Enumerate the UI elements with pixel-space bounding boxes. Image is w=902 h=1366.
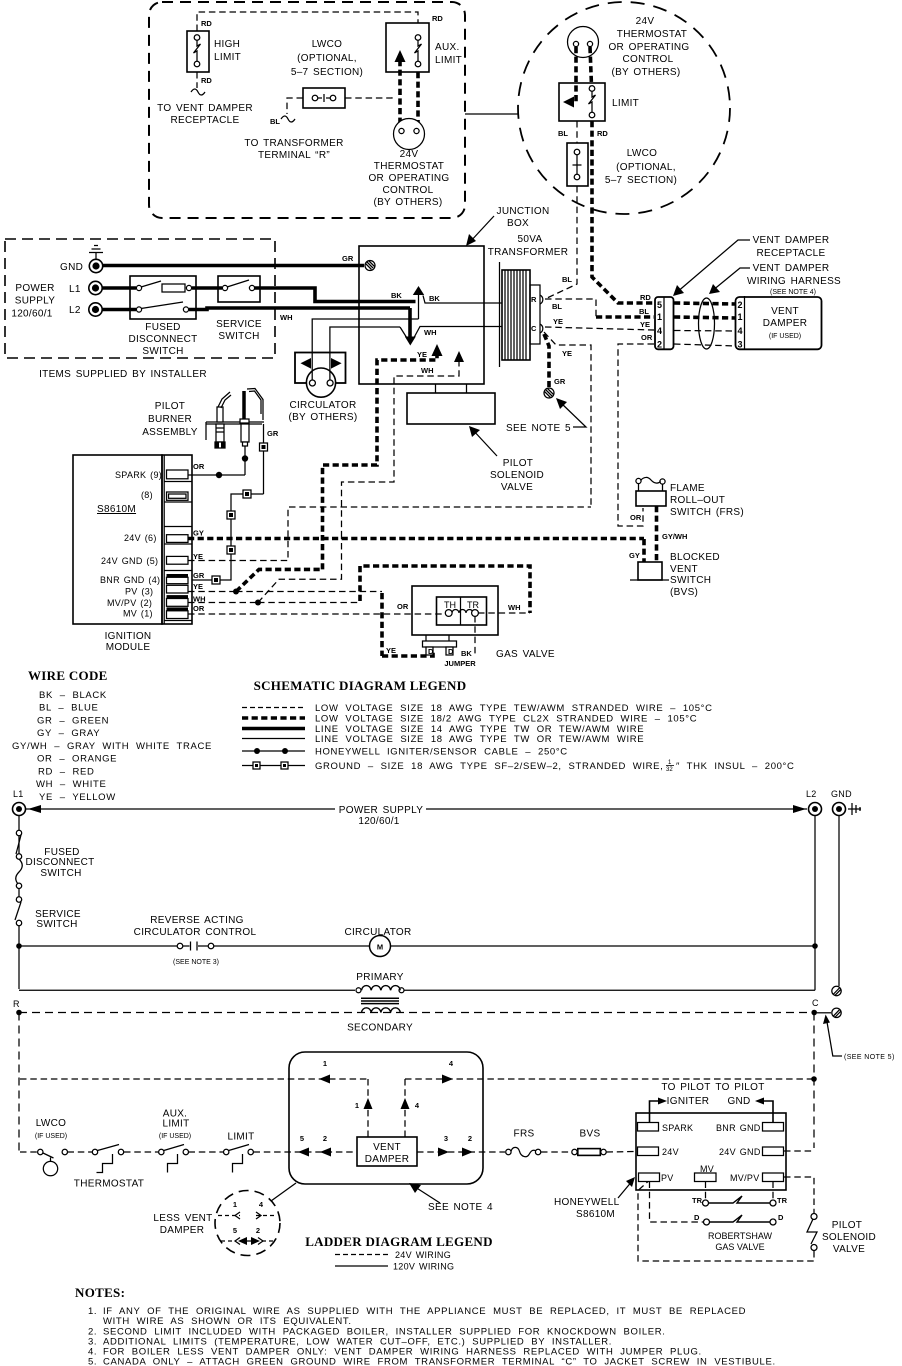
svg-text:SERVICE: SERVICE xyxy=(216,319,262,330)
svg-text:50VA: 50VA xyxy=(518,234,543,245)
svg-text:VALVE: VALVE xyxy=(501,482,533,493)
svg-text:DAMPER: DAMPER xyxy=(365,1154,410,1165)
svg-text:LOW VOLTAGE SIZE 18/2 AWG TYPE: LOW VOLTAGE SIZE 18/2 AWG TYPE CL2X STRA… xyxy=(315,714,697,725)
svg-text:BL: BL xyxy=(562,275,572,284)
svg-text:L1: L1 xyxy=(13,789,24,799)
svg-text:2: 2 xyxy=(657,340,662,350)
svg-text:GAS VALVE: GAS VALVE xyxy=(715,1242,764,1252)
svg-text:BL: BL xyxy=(270,117,280,126)
svg-text:POWER: POWER xyxy=(15,283,54,294)
svg-text:(SEE NOTE 4): (SEE NOTE 4) xyxy=(770,289,816,296)
svg-text:VENT: VENT xyxy=(670,564,698,575)
svg-text:LINE VOLTAGE SIZE 18 AWG TYPE: LINE VOLTAGE SIZE 18 AWG TYPE TW OR TEW/… xyxy=(315,734,644,745)
svg-text:TERMINAL “R”: TERMINAL “R” xyxy=(258,150,330,161)
svg-text:5.: 5. xyxy=(88,1357,97,1366)
svg-text:SPARK (9): SPARK (9) xyxy=(115,470,162,480)
svg-text:PV: PV xyxy=(661,1173,674,1183)
svg-text:32: 32 xyxy=(666,767,673,773)
svg-text:TO PILOT: TO PILOT xyxy=(661,1082,710,1093)
svg-text:OR: OR xyxy=(630,513,642,522)
svg-text:S8610M: S8610M xyxy=(576,1209,615,1220)
svg-text:ASSEMBLY: ASSEMBLY xyxy=(142,427,198,438)
svg-text:OR: OR xyxy=(193,462,205,471)
svg-text:PILOT: PILOT xyxy=(155,401,185,412)
svg-text:DISCONNECT: DISCONNECT xyxy=(25,857,94,868)
svg-text:YE: YE xyxy=(553,317,563,326)
svg-text:ROBERTSHAW: ROBERTSHAW xyxy=(708,1231,773,1241)
svg-text:(SEE NOTE 3): (SEE NOTE 3) xyxy=(173,959,219,966)
svg-text:CIRCULATOR: CIRCULATOR xyxy=(344,927,411,938)
svg-text:24V: 24V xyxy=(662,1147,679,1157)
svg-text:CONTROL: CONTROL xyxy=(383,185,434,196)
svg-text:RD: RD xyxy=(432,14,443,23)
svg-text:JUNCTION: JUNCTION xyxy=(497,206,550,217)
svg-text:THERMOSTAT: THERMOSTAT xyxy=(74,1179,144,1190)
svg-text:SOLENOID: SOLENOID xyxy=(490,470,544,481)
svg-text:RECEPTACLE: RECEPTACLE xyxy=(757,248,826,259)
svg-text:5–7 SECTION): 5–7 SECTION) xyxy=(291,67,363,78)
svg-text:PRIMARY: PRIMARY xyxy=(356,972,404,983)
svg-text:WH: WH xyxy=(508,603,521,612)
svg-text:TO PILOT: TO PILOT xyxy=(715,1082,764,1093)
svg-text:GY: GY xyxy=(193,529,204,538)
svg-text:CANADA ONLY – ATTACH GREEN GRO: CANADA ONLY – ATTACH GREEN GROUND WIRE F… xyxy=(103,1357,776,1366)
svg-text:PILOT: PILOT xyxy=(832,1220,862,1231)
svg-text:DISCONNECT: DISCONNECT xyxy=(128,334,197,345)
svg-text:24V WIRING: 24V WIRING xyxy=(395,1250,451,1260)
svg-text:3: 3 xyxy=(444,1134,448,1143)
svg-text:VALVE: VALVE xyxy=(833,1244,865,1255)
svg-text:TR: TR xyxy=(777,1196,788,1205)
svg-text:TR: TR xyxy=(692,1196,703,1205)
svg-text:OR: OR xyxy=(397,602,409,611)
svg-text:24V GND (5): 24V GND (5) xyxy=(101,556,158,566)
svg-text:24V: 24V xyxy=(636,16,655,27)
svg-text:LIMIT: LIMIT xyxy=(612,98,639,109)
svg-text:POWER SUPPLY: POWER SUPPLY xyxy=(339,805,423,816)
svg-text:WIRING HARNESS: WIRING HARNESS xyxy=(747,276,841,287)
svg-text:GND: GND xyxy=(831,789,852,799)
svg-text:VENT DAMPER: VENT DAMPER xyxy=(753,235,830,246)
svg-text:BL: BL xyxy=(639,307,649,316)
svg-text:24V GND: 24V GND xyxy=(719,1147,761,1157)
svg-text:LIMIT: LIMIT xyxy=(214,52,241,63)
svg-text:BL: BL xyxy=(552,302,562,311)
svg-text:M: M xyxy=(377,943,383,952)
svg-text:GY: GY xyxy=(629,551,640,560)
svg-text:(OPTIONAL,: (OPTIONAL, xyxy=(297,53,357,64)
svg-text:TRANSFORMER: TRANSFORMER xyxy=(488,247,569,258)
svg-text:PILOT: PILOT xyxy=(503,458,533,469)
svg-text:120/60/1: 120/60/1 xyxy=(358,816,399,827)
svg-text:LWCO: LWCO xyxy=(312,39,342,50)
svg-text:IGNITER: IGNITER xyxy=(667,1096,710,1107)
svg-text:YE: YE xyxy=(640,320,650,329)
svg-text:GR: GR xyxy=(554,377,566,386)
svg-text:D: D xyxy=(778,1213,784,1222)
svg-text:R: R xyxy=(531,295,537,304)
svg-text:YE: YE xyxy=(386,646,396,655)
svg-text:2: 2 xyxy=(323,1134,327,1143)
svg-text:(OPTIONAL,: (OPTIONAL, xyxy=(616,162,676,173)
svg-text:LWCO: LWCO xyxy=(627,148,657,159)
svg-text:GY/WH – GRAY WITH WHITE TRACE: GY/WH – GRAY WITH WHITE TRACE xyxy=(12,741,212,752)
svg-text:BLOCKED: BLOCKED xyxy=(670,552,720,563)
svg-text:1: 1 xyxy=(355,1101,359,1110)
svg-text:HONEYWELL: HONEYWELL xyxy=(554,1197,620,1208)
svg-text:SUPPLY: SUPPLY xyxy=(15,296,56,307)
svg-text:GR – GREEN: GR – GREEN xyxy=(37,716,109,727)
svg-text:SOLENOID: SOLENOID xyxy=(822,1232,876,1243)
svg-text:(BY OTHERS): (BY OTHERS) xyxy=(611,67,680,78)
svg-text:5–7 SECTION): 5–7 SECTION) xyxy=(605,175,677,186)
svg-text:L1: L1 xyxy=(69,284,81,295)
svg-text:SCHEMATIC DIAGRAM LEGEND: SCHEMATIC DIAGRAM LEGEND xyxy=(254,678,467,693)
svg-text:GR: GR xyxy=(193,571,205,580)
svg-text:OR OPERATING: OR OPERATING xyxy=(608,42,689,53)
svg-text:RD: RD xyxy=(201,19,212,28)
svg-text:BK – BLACK: BK – BLACK xyxy=(39,690,107,701)
svg-text:SWITCH: SWITCH xyxy=(670,575,711,586)
svg-text:WH: WH xyxy=(424,328,437,337)
svg-text:5: 5 xyxy=(657,300,662,310)
svg-text:HONEYWELL IGNITER/SENSOR CABLE: HONEYWELL IGNITER/SENSOR CABLE – 250°C xyxy=(315,747,568,758)
svg-text:WH – WHITE: WH – WHITE xyxy=(36,779,107,790)
svg-text:1.: 1. xyxy=(88,1306,97,1317)
svg-text:L2: L2 xyxy=(806,789,817,799)
svg-text:YE: YE xyxy=(562,349,572,358)
svg-text:BVS: BVS xyxy=(580,1129,601,1140)
svg-text:24V: 24V xyxy=(400,149,419,160)
svg-text:S8610M: S8610M xyxy=(97,504,136,515)
svg-text:LIMIT: LIMIT xyxy=(162,1119,189,1130)
svg-text:(BVS): (BVS) xyxy=(670,587,698,598)
svg-text:5: 5 xyxy=(233,1226,237,1235)
svg-text:NOTES:: NOTES: xyxy=(75,1285,125,1300)
svg-text:GR: GR xyxy=(342,254,354,263)
svg-text:YE: YE xyxy=(193,582,203,591)
svg-text:GY/WH: GY/WH xyxy=(662,532,687,541)
svg-text:OR OPERATING: OR OPERATING xyxy=(368,173,449,184)
svg-text:YE: YE xyxy=(193,552,203,561)
svg-text:SECONDARY: SECONDARY xyxy=(347,1023,413,1034)
svg-text:THERMOSTAT: THERMOSTAT xyxy=(617,29,687,40)
svg-text:1: 1 xyxy=(657,312,662,322)
svg-text:VENT: VENT xyxy=(373,1142,401,1153)
svg-text:″ THK INSUL – 200°C: ″ THK INSUL – 200°C xyxy=(676,761,795,772)
svg-text:OR: OR xyxy=(193,604,205,613)
svg-text:WIRE CODE: WIRE CODE xyxy=(28,668,108,683)
svg-text:D: D xyxy=(694,1213,700,1222)
svg-text:FUSED: FUSED xyxy=(145,322,180,333)
svg-text:BK: BK xyxy=(391,291,402,300)
svg-text:FLAME: FLAME xyxy=(670,483,705,494)
svg-text:CONTROL: CONTROL xyxy=(623,54,674,65)
svg-text:YE: YE xyxy=(417,350,427,359)
svg-text:LIMIT: LIMIT xyxy=(435,55,462,66)
svg-text:LESS VENT: LESS VENT xyxy=(153,1213,212,1224)
svg-text:GY – GRAY: GY – GRAY xyxy=(37,728,100,739)
svg-text:TO VENT DAMPER: TO VENT DAMPER xyxy=(157,103,253,114)
svg-text:(IF USED): (IF USED) xyxy=(769,333,801,340)
svg-text:2: 2 xyxy=(737,300,742,310)
svg-text:MV/PV: MV/PV xyxy=(730,1173,760,1183)
svg-text:GROUND – SIZE 18 AWG TYPE SF–2: GROUND – SIZE 18 AWG TYPE SF–2/SEW–2, ST… xyxy=(315,761,663,772)
svg-text:WH: WH xyxy=(280,313,293,322)
svg-text:VENT: VENT xyxy=(771,306,799,317)
svg-text:ROLL–OUT: ROLL–OUT xyxy=(670,495,725,506)
svg-text:120V WIRING: 120V WIRING xyxy=(393,1262,454,1272)
svg-text:WH: WH xyxy=(421,366,434,375)
svg-text:SEE NOTE 4: SEE NOTE 4 xyxy=(428,1202,493,1213)
svg-text:1: 1 xyxy=(323,1059,327,1068)
svg-text:D: D xyxy=(428,647,434,656)
svg-text:BURNER: BURNER xyxy=(148,414,192,425)
svg-text:YE – YELLOW: YE – YELLOW xyxy=(39,792,116,803)
svg-text:BNR GND (4): BNR GND (4) xyxy=(100,575,160,585)
svg-text:120/60/1: 120/60/1 xyxy=(11,309,52,320)
svg-text:4: 4 xyxy=(737,326,742,336)
svg-text:SWITCH: SWITCH xyxy=(218,331,259,342)
svg-text:(IF USED): (IF USED) xyxy=(35,1133,67,1140)
svg-text:L2: L2 xyxy=(69,305,81,316)
svg-text:TH: TH xyxy=(444,600,456,610)
svg-text:1: 1 xyxy=(737,312,742,322)
svg-text:4: 4 xyxy=(657,326,662,336)
svg-text:1: 1 xyxy=(233,1200,237,1209)
svg-text:BNR GND: BNR GND xyxy=(716,1123,761,1133)
svg-text:C: C xyxy=(531,324,537,333)
svg-text:MODULE: MODULE xyxy=(106,642,151,653)
svg-text:2: 2 xyxy=(468,1134,472,1143)
svg-text:D: D xyxy=(448,647,454,656)
svg-text:BL – BLUE: BL – BLUE xyxy=(39,703,99,714)
svg-text:GND: GND xyxy=(727,1096,750,1107)
svg-text:MV/PV (2): MV/PV (2) xyxy=(107,598,152,608)
svg-text:LIMIT: LIMIT xyxy=(227,1132,254,1143)
svg-text:VENT DAMPER: VENT DAMPER xyxy=(753,263,830,274)
svg-text:CIRCULATOR CONTROL: CIRCULATOR CONTROL xyxy=(134,927,257,938)
svg-text:BL: BL xyxy=(558,129,568,138)
svg-text:(IF USED): (IF USED) xyxy=(159,1133,191,1140)
svg-text:C: C xyxy=(812,998,819,1008)
svg-text:RD: RD xyxy=(597,129,608,138)
svg-text:REVERSE ACTING: REVERSE ACTING xyxy=(150,915,244,926)
svg-text:ITEMS SUPPLIED BY INSTALLER: ITEMS SUPPLIED BY INSTALLER xyxy=(39,369,207,380)
svg-text:(8): (8) xyxy=(141,490,153,500)
svg-text:24V (6): 24V (6) xyxy=(124,533,157,543)
svg-text:FRS: FRS xyxy=(514,1129,535,1140)
svg-text:BK: BK xyxy=(429,294,440,303)
svg-text:2: 2 xyxy=(256,1226,260,1235)
svg-text:(SEE NOTE 5): (SEE NOTE 5) xyxy=(844,1054,895,1061)
svg-text:LADDER DIAGRAM LEGEND: LADDER DIAGRAM LEGEND xyxy=(305,1234,493,1249)
svg-text:PV (3): PV (3) xyxy=(125,587,153,597)
svg-text:LOW VOLTAGE SIZE 18 AWG TYPE T: LOW VOLTAGE SIZE 18 AWG TYPE TEW/AWM STR… xyxy=(315,703,713,714)
svg-text:SWITCH: SWITCH xyxy=(142,346,183,357)
svg-text:HIGH: HIGH xyxy=(214,39,240,50)
svg-text:THERMOSTAT: THERMOSTAT xyxy=(374,161,444,172)
svg-text:BOX: BOX xyxy=(507,218,529,229)
svg-text:TO TRANSFORMER: TO TRANSFORMER xyxy=(244,138,343,149)
svg-text:CIRCULATOR: CIRCULATOR xyxy=(289,400,356,411)
svg-text:OR: OR xyxy=(641,333,653,342)
svg-text:SWITCH: SWITCH xyxy=(36,919,77,930)
svg-text:(BY OTHERS): (BY OTHERS) xyxy=(288,412,357,423)
svg-text:AUX.: AUX. xyxy=(435,42,460,53)
svg-text:IGNITION: IGNITION xyxy=(105,631,152,642)
svg-text:DAMPER: DAMPER xyxy=(763,318,808,329)
svg-text:MV (1): MV (1) xyxy=(123,609,153,619)
svg-text:SEE NOTE 5: SEE NOTE 5 xyxy=(506,423,571,434)
svg-text:JUMPER: JUMPER xyxy=(444,659,476,668)
svg-text:SWITCH: SWITCH xyxy=(40,868,81,879)
svg-text:OR – ORANGE: OR – ORANGE xyxy=(37,754,117,765)
svg-text:GND: GND xyxy=(60,262,83,273)
svg-text:SPARK: SPARK xyxy=(662,1123,693,1133)
svg-text:RD: RD xyxy=(201,76,212,85)
svg-text:LWCO: LWCO xyxy=(36,1118,66,1129)
svg-text:R: R xyxy=(13,999,20,1009)
svg-text:5: 5 xyxy=(300,1134,304,1143)
svg-text:3: 3 xyxy=(737,340,742,350)
svg-text:RECEPTACLE: RECEPTACLE xyxy=(171,115,240,126)
svg-text:RD – RED: RD – RED xyxy=(38,767,95,778)
svg-text:BK: BK xyxy=(461,649,472,658)
svg-text:DAMPER: DAMPER xyxy=(160,1225,205,1236)
svg-text:RD: RD xyxy=(640,293,651,302)
svg-text:TR: TR xyxy=(467,600,479,610)
svg-text:WITH WIRE AS SHOWN OR ITS EQUI: WITH WIRE AS SHOWN OR ITS EQUIVALENT. xyxy=(103,1316,352,1327)
svg-text:SWITCH (FRS): SWITCH (FRS) xyxy=(670,507,744,518)
svg-text:GR: GR xyxy=(267,429,279,438)
svg-text:(BY OTHERS): (BY OTHERS) xyxy=(373,197,442,208)
svg-text:GAS VALVE: GAS VALVE xyxy=(496,649,555,660)
